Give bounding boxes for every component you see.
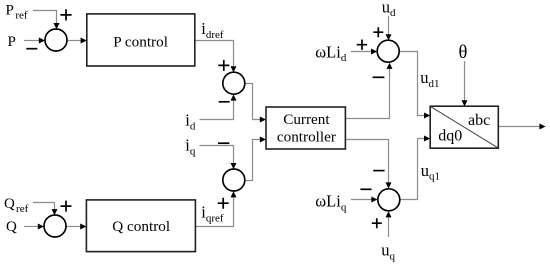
minus sign at S6 (omega-L-iq): [360, 188, 371, 190]
block U3: Current controller: [266, 107, 345, 149]
wire S5 output (u_d1) to abc/dq0 block: [399, 52, 430, 119]
wire S1 to P control block: [67, 38, 87, 44]
block U1: P control: [87, 14, 195, 66]
wire Current controller lower output to S6: [346, 140, 391, 189]
summing junction S2 (i_d): [223, 72, 245, 94]
plus sign at S5 (omega-L-id): [357, 40, 367, 50]
wire i_q input to S3: [200, 146, 237, 170]
minus sign at S6 (current controller feedback): [373, 170, 384, 172]
summing junction S3 (i_q): [223, 169, 245, 191]
wire S2 to Current controller upper input: [245, 84, 266, 123]
svg-text:Q: Q: [6, 219, 17, 235]
summing junction S5 (u_d): [377, 40, 399, 62]
wire Current controller upper output to S5: [346, 63, 392, 119]
svg-text:P: P: [8, 34, 16, 50]
wire u_d input to S5: [386, 16, 392, 40]
block U4: dq0 to abc transform: [430, 106, 498, 148]
minus sign at S1 (P): [26, 48, 37, 50]
svg-text:dq0: dq0: [438, 127, 462, 144]
summing junction S4 (Q): [44, 215, 66, 237]
minus sign at S3 (i_q): [218, 142, 229, 144]
wire i_d input to S2: [200, 94, 237, 119]
wire Pref input to junction S1: [33, 11, 60, 30]
block U2: Q control: [86, 200, 195, 252]
wire S6 output (u_q1) to abc/dq0 block: [400, 136, 430, 200]
plus sign at S5 (u_d): [373, 27, 383, 37]
plus sign at S4 (Qref): [61, 201, 72, 212]
wire S4 to Q control block: [66, 224, 86, 230]
svg-text:Q control: Q control: [112, 218, 170, 235]
wire P control output (i_dref) to S2: [195, 41, 237, 73]
wire omega-L-iq input to S6: [351, 197, 378, 203]
wire u_q input to S6: [386, 211, 392, 237]
plus sign at S1 (Pref): [60, 9, 71, 20]
wire Q control output (i_qref) to S3: [195, 191, 236, 226]
wire Q input to junction S4: [24, 224, 44, 230]
plus sign at S6 (u_q): [372, 218, 382, 228]
wire theta input to abc/dq0 block: [462, 61, 468, 106]
wire abc/dq0 block output: [499, 124, 546, 130]
wire P input to junction S1: [24, 38, 45, 44]
svg-text:Current: Current: [283, 111, 330, 128]
svg-text:controller: controller: [277, 129, 336, 146]
wire Qref input to junction S4: [33, 203, 58, 216]
minus sign at S2 (i_d): [219, 101, 230, 103]
svg-text:abc: abc: [468, 112, 490, 129]
plus sign at S2 (i_dref): [218, 60, 229, 71]
wire S3 to Current controller lower input: [245, 137, 266, 181]
plus sign at S3 (i_qref): [218, 198, 229, 209]
wire omega-L-id input to S5: [351, 49, 377, 55]
summing junction S6 (u_q): [378, 189, 400, 211]
svg-text:θ: θ: [459, 43, 468, 63]
summing junction S1 (P): [45, 29, 67, 51]
svg-text:P control: P control: [113, 33, 168, 50]
minus sign at S5 (current controller feedback): [373, 76, 385, 78]
